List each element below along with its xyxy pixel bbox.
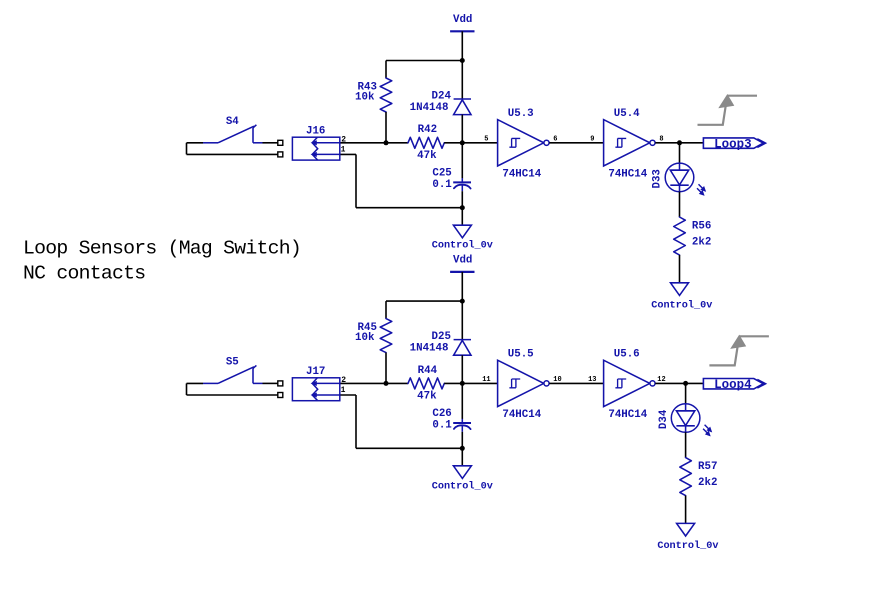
node junction (RC filter node): [460, 140, 465, 145]
wire R56 to ground: [679, 255, 681, 283]
port Loop4 (output flag): [703, 379, 763, 389]
svg-text:1: 1: [341, 386, 346, 395]
ground Control_0v (main): [453, 225, 471, 238]
wire Vdd to top node: [461, 31, 463, 60]
svg-text:Control_0v: Control_0v: [432, 480, 493, 492]
svg-text:D24: D24: [432, 90, 452, 102]
wire S5 contact to terminal: [263, 382, 278, 384]
svg-text:13: 13: [588, 376, 596, 384]
wire to ground symbol: [461, 208, 463, 226]
svg-text:U5.4: U5.4: [614, 108, 640, 120]
svg-text:Loop4: Loop4: [714, 378, 752, 392]
wire C26 to bottom rail: [461, 432, 463, 449]
wire J16 pin1 return rail: [340, 153, 356, 155]
svg-text:Vdd: Vdd: [453, 254, 472, 266]
node junction (output node): [683, 381, 688, 386]
diode D25 1N4148 (clamp to Vdd): [461, 301, 463, 340]
connector J17 (2-pin plug): [292, 378, 339, 401]
wire R44 to RC node: [444, 382, 497, 384]
svg-text:U5.5: U5.5: [508, 349, 534, 361]
svg-text:10k: 10k: [355, 332, 375, 344]
wire S4 contact to terminal: [263, 142, 278, 144]
wire D24 anode to input node: [461, 115, 463, 143]
svg-text:D25: D25: [432, 331, 451, 343]
wire D34 to R57: [685, 432, 687, 457]
wire S4 loop-back: [186, 143, 188, 155]
wire U5.4 output to port Loop3: [655, 142, 703, 144]
port Loop3 (output flag): [703, 138, 763, 148]
wire D25 anode to input node: [461, 355, 463, 383]
node junction (top, Vdd net): [460, 58, 465, 63]
svg-text:J17: J17: [306, 366, 325, 378]
svg-text:10k: 10k: [355, 91, 375, 103]
svg-text:U5.3: U5.3: [508, 108, 534, 120]
svg-text:Control_0v: Control_0v: [657, 540, 718, 552]
terminal square (bottom, S4): [278, 152, 283, 157]
svg-text:1N4148: 1N4148: [410, 343, 449, 355]
wire top node to pull-up resistor: [386, 60, 462, 62]
node junction (top, Vdd net): [460, 299, 465, 304]
svg-text:J16: J16: [306, 125, 325, 137]
ground Control_0v (main): [453, 466, 471, 479]
svg-text:D34: D34: [658, 409, 670, 429]
svg-text:Control_0v: Control_0v: [432, 240, 493, 252]
LED D33 (indicator): [665, 163, 694, 192]
op-amp-style inverter gate U5.5 (74HC14 schmitt trigger): [498, 360, 544, 406]
svg-text:11: 11: [482, 376, 490, 384]
LED D34 (indicator): [671, 404, 700, 433]
rising-edge waveform annotation (gray): [698, 102, 727, 125]
wire R43 to input node: [385, 112, 387, 143]
wire J16 pin2 to node A: [340, 142, 408, 144]
resistor R45 10k (pull-up): [380, 319, 392, 353]
wire top node to pull-up resistor: [386, 300, 462, 302]
svg-text:2k2: 2k2: [692, 236, 711, 248]
wire R45 to input node: [385, 353, 387, 384]
resistor R57 2k2 (LED current limit): [680, 458, 692, 496]
wire U5.6 output to port Loop4: [655, 382, 703, 384]
svg-text:C26: C26: [432, 408, 451, 420]
svg-text:0.1: 0.1: [432, 179, 452, 191]
LED D34 emission arrows: [705, 425, 711, 431]
rising-edge waveform annotation (gray): [709, 343, 738, 366]
wire S4 common to terminal: [187, 142, 204, 144]
svg-text:2: 2: [341, 376, 346, 385]
svg-text:R56: R56: [692, 220, 711, 232]
op-amp-style inverter gate U5.3 (74HC14 schmitt trigger): [498, 120, 544, 166]
wire S5 loop-back: [186, 383, 188, 395]
wire output node to LED D34: [685, 383, 687, 403]
svg-text:U5.6: U5.6: [614, 349, 640, 361]
node junction (RC filter node): [460, 381, 465, 386]
svg-text:74HC14: 74HC14: [502, 169, 541, 181]
capacitor C26 0.1 (filter): [461, 383, 463, 419]
wire to ground symbol: [461, 448, 463, 466]
svg-text:R57: R57: [698, 461, 717, 473]
resistor R42 47k (series): [408, 137, 444, 148]
node junction (bottom rail): [460, 446, 465, 451]
ground Control_0v (LED branch): [677, 523, 695, 536]
wire J17 pin2 to node A: [340, 382, 408, 384]
svg-text:2k2: 2k2: [698, 477, 717, 489]
node junction (output node): [677, 140, 682, 145]
svg-text:0.1: 0.1: [432, 420, 452, 432]
svg-text:S5: S5: [226, 356, 239, 368]
svg-text:1: 1: [341, 146, 346, 155]
op-amp-style inverter gate U5.6 (74HC14 schmitt trigger): [604, 360, 650, 406]
svg-text:9: 9: [590, 136, 594, 144]
svg-text:47k: 47k: [417, 150, 437, 162]
wire R57 to ground: [685, 496, 687, 524]
resistor R43 10k (pull-up): [380, 78, 392, 112]
wire C25 to bottom rail: [461, 191, 463, 208]
wire output node to LED D33: [679, 143, 681, 163]
svg-text:47k: 47k: [417, 390, 437, 402]
svg-text:Loop Sensors (Mag Switch): Loop Sensors (Mag Switch): [23, 238, 301, 260]
wire R42 to RC node: [444, 142, 497, 144]
node junction (switch / pull-up node): [384, 140, 389, 145]
svg-text:Loop3: Loop3: [714, 137, 752, 151]
svg-text:74HC14: 74HC14: [502, 409, 541, 421]
svg-text:Vdd: Vdd: [453, 14, 472, 26]
wire S5 common to terminal: [187, 382, 204, 384]
node junction (bottom rail): [460, 205, 465, 210]
svg-text:5: 5: [484, 136, 488, 144]
ground Control_0v (LED branch): [671, 283, 689, 296]
svg-text:1N4148: 1N4148: [410, 102, 449, 114]
wire Vdd to top node: [461, 272, 463, 301]
svg-text:NC contacts: NC contacts: [23, 263, 145, 285]
wire U5.3 output to U5.4 input: [549, 142, 603, 144]
terminal square (bottom, S5): [278, 393, 283, 398]
LED D33 emission arrows: [699, 184, 705, 190]
svg-text:R44: R44: [418, 365, 438, 377]
wire J17 pin1 return rail: [340, 394, 356, 396]
terminal square (top, S5): [278, 381, 283, 386]
terminal square (top, S4): [278, 140, 283, 145]
node junction (switch / pull-up node): [384, 381, 389, 386]
svg-text:Control_0v: Control_0v: [651, 300, 712, 312]
svg-text:S4: S4: [226, 116, 239, 128]
svg-text:74HC14: 74HC14: [608, 169, 647, 181]
svg-text:R42: R42: [418, 124, 437, 136]
diode D24 1N4148 (clamp to Vdd): [461, 61, 463, 100]
wire U5.5 output to U5.6 input: [549, 382, 603, 384]
svg-text:2: 2: [341, 135, 346, 144]
op-amp-style inverter gate U5.4 (74HC14 schmitt trigger): [604, 120, 650, 166]
svg-text:D33: D33: [652, 169, 664, 188]
connector J16 (2-pin plug): [292, 137, 339, 160]
resistor R56 2k2 (LED current limit): [674, 217, 686, 255]
capacitor C25 0.1 (filter): [461, 143, 463, 179]
resistor R44 47k (series): [408, 378, 444, 389]
svg-text:74HC14: 74HC14: [608, 409, 647, 421]
wire D33 to R56: [679, 192, 681, 217]
svg-text:C25: C25: [432, 167, 451, 179]
